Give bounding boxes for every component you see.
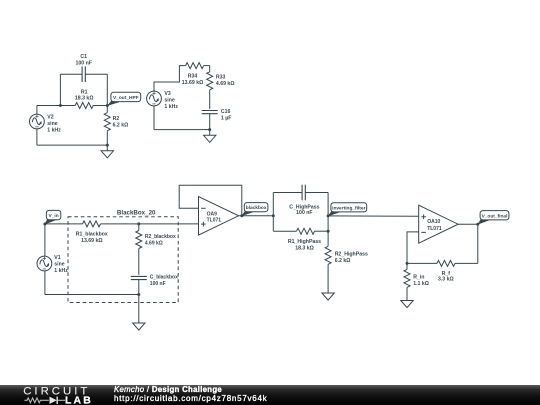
BlackBox_20 label (114, 208, 159, 216)
voltage source V2 (30, 114, 45, 129)
wire bottom edge left (273, 230, 296, 232)
resistor R2 (106, 106, 108, 113)
ground R2_HighPass (322, 293, 334, 300)
flag V_in (44, 218, 58, 225)
wire OA10 minus loop (407, 232, 419, 264)
wire rail V_in to R1_blackbox (45, 223, 83, 225)
resistor R1_HighPass (297, 228, 315, 234)
voltage source V1 (37, 256, 52, 271)
op-amp OA10 (419, 205, 458, 243)
flag blackbox (241, 210, 256, 217)
wire OA10 output (458, 223, 478, 225)
node highpass in (272, 214, 275, 217)
wire up to C1 branch (59, 74, 61, 105)
wire bottom edge right (315, 230, 329, 232)
capacitor C1 (81, 66, 83, 82)
wire Rf left lead (407, 262, 437, 264)
node junction C1 branch (59, 104, 62, 107)
node inverting_filter (327, 214, 330, 217)
svg-text:Kemcho / Design Challenge: Kemcho / Design Challenge (114, 385, 222, 394)
wire R2_HighPass to ground (327, 264, 329, 293)
wire to OA10 plus (328, 215, 419, 217)
node V_out_HPF (106, 104, 109, 107)
ground R_in (401, 301, 413, 308)
wire R1_blackbox to node (101, 223, 139, 225)
wire V_in node to V1 (44, 224, 46, 256)
wire OA9 feedback (179, 185, 242, 216)
resistor R1 (75, 103, 93, 109)
resistor R2_blackbox (136, 231, 142, 249)
capacitor C_HighPass (301, 185, 303, 201)
resistor R2_HighPass (325, 246, 331, 264)
wire R33 to C16 (209, 90, 211, 109)
bottom CircuitLab bar (0, 385, 540, 405)
flag V_out_final (477, 218, 492, 225)
op-amp OA9 (199, 197, 239, 236)
svg-text:LAB: LAB (65, 396, 93, 405)
wire top edge left (273, 192, 302, 194)
wire V3 top jog (154, 66, 186, 92)
wire C1 down to output node (106, 74, 108, 105)
node bottom HPF (106, 144, 109, 147)
flag Inverting_filter (328, 210, 343, 217)
wire node to R2_HighPass (327, 231, 329, 246)
wire left edge highpass box (272, 193, 274, 232)
ground V3 (204, 135, 216, 142)
wire R2_blackbox to C_blackbox (138, 249, 140, 275)
ground HPF (101, 151, 113, 158)
svg-text:http://circuitlab.com/cp4z78n5: http://circuitlab.com/cp4z78n57v64k (114, 394, 268, 403)
ground blackbox (133, 323, 145, 330)
wire to ground blackbox (138, 295, 140, 324)
wire top edge right (305, 192, 328, 194)
wire to ground V3 (209, 130, 211, 136)
node blackbox top (137, 222, 140, 225)
capacitor C_blackbox (131, 275, 147, 277)
wire R1 to node (93, 105, 107, 107)
resistor R33 (207, 72, 213, 90)
node bottom blackbox (137, 293, 140, 296)
wire C16 to bottom rail (209, 114, 211, 130)
capacitor C16 (202, 110, 218, 112)
resistor R_f (437, 260, 455, 266)
wire R_in to ground (406, 287, 408, 300)
wire V2 bottom (36, 129, 38, 145)
wire C1 left lead (60, 73, 82, 75)
node OA10 output (476, 223, 479, 226)
node highpass bottom right (327, 230, 330, 233)
resistor R34 (186, 63, 204, 69)
wire bottom rail blackbox (45, 294, 139, 296)
wire node to R_in (406, 263, 408, 269)
node OA9 output (240, 214, 243, 217)
wire R34 to R33 (204, 65, 210, 67)
node V_in (43, 223, 46, 226)
wire right edge highpass box (327, 193, 329, 232)
wire C1 right lead (85, 73, 107, 75)
wire output down (477, 224, 479, 263)
wire V1 bottom (44, 271, 46, 295)
wire V3 bottom (153, 106, 155, 130)
wire bottom rail HPF (37, 144, 107, 146)
wire Rf right lead (455, 262, 478, 264)
wire node to R2_blackbox (138, 224, 140, 231)
node bottom V3 (208, 128, 211, 131)
resistor R1_blackbox (83, 221, 101, 227)
resistor R_in (404, 269, 410, 287)
node Rf Rin (406, 262, 409, 265)
wire to ground HPF (106, 145, 108, 151)
flag V_out_HPF (107, 100, 123, 106)
wire rail V2 to R1 (37, 105, 75, 107)
wire rail to OA9 plus (139, 223, 199, 225)
dashed box BlackBox_20 (68, 217, 178, 303)
wire bottom rail V3 (154, 129, 210, 131)
voltage source V3 (147, 91, 162, 106)
logo diode (50, 397, 57, 404)
wire V2 top to rail (36, 106, 38, 115)
logo resistor squiggle (25, 398, 49, 403)
wire C_blackbox to bottom rail (138, 280, 140, 295)
wire OA9 output (239, 215, 274, 217)
